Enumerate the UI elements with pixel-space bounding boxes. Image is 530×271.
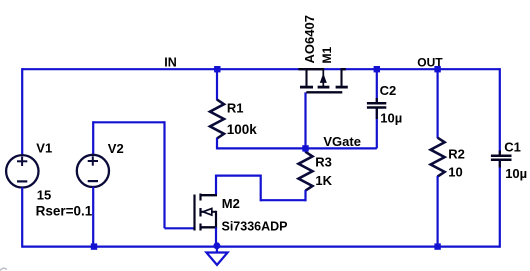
svg-text:1K: 1K — [315, 173, 332, 188]
wire top rail IN to OUT — [22, 68, 500, 70]
resistor R1 — [210, 100, 224, 139]
wire R1 top tail — [216, 69, 218, 100]
svg-text:C2: C2 — [380, 83, 397, 98]
wire V2 top vertical — [92, 121, 94, 155]
wire M2 gate horizontal — [165, 227, 195, 229]
svg-text:M2: M2 — [222, 196, 240, 211]
junction M2 source — [213, 242, 220, 249]
wire R3 to M2 drain seg2 — [260, 175, 262, 202]
junction V2 bottom — [91, 243, 97, 249]
resistor R2 — [431, 138, 445, 177]
svg-text:10µ: 10µ — [380, 111, 402, 126]
svg-text:AO6407: AO6407 — [302, 15, 317, 63]
svg-text:100k: 100k — [227, 122, 258, 137]
capacitor C1 — [491, 68, 512, 248]
transistor M2 NMOS — [195, 194, 218, 231]
junction IN — [214, 66, 220, 72]
svg-text:R3: R3 — [315, 154, 332, 169]
svg-text:10: 10 — [448, 165, 462, 180]
wire V2 top horizontal — [93, 121, 164, 123]
svg-text:V2: V2 — [108, 141, 124, 156]
svg-text:VGate: VGate — [323, 134, 361, 149]
svg-text:R2: R2 — [448, 146, 465, 161]
junction C2 top — [374, 66, 380, 72]
svg-text:V1: V1 — [36, 141, 52, 156]
svg-text:Si7336ADP: Si7336ADP — [222, 220, 288, 234]
wire R3 bottom tail — [304, 190, 306, 201]
wire bottom rail — [22, 246, 500, 248]
resistor R3 — [299, 152, 313, 191]
wire R3 top tail — [304, 148, 306, 152]
wire R3 to M2 drain seg3 — [216, 175, 261, 177]
wire gate feed vertical — [163, 121, 165, 228]
wire VGate horizontal — [217, 147, 377, 149]
corner artifact — [0, 268, 7, 270]
wire R3 to M2 drain seg1 — [261, 199, 306, 201]
junction VGate — [302, 145, 308, 151]
ground — [206, 253, 227, 265]
junction R2 bottom — [434, 243, 440, 249]
junction OUT — [434, 66, 440, 72]
svg-text:M1: M1 — [320, 47, 334, 64]
capacitor C2 — [367, 69, 386, 148]
wire M2 drain vertical — [215, 175, 217, 196]
svg-text:C1: C1 — [504, 139, 521, 154]
wire R1 bottom tail — [216, 138, 218, 150]
svg-text:15: 15 — [37, 187, 51, 202]
wire V2 bottom — [92, 187, 94, 247]
svg-text:R1: R1 — [227, 100, 244, 115]
ground stub — [216, 247, 218, 253]
wire left rail upper — [21, 68, 23, 155]
voltage source V2 — [77, 155, 109, 187]
voltage source V1 — [6, 155, 38, 187]
wire left rail lower — [21, 187, 23, 247]
wire M2 source — [215, 227, 217, 246]
transistor M1 PMOS — [298, 69, 347, 92]
wire M1 gate drop — [304, 92, 306, 149]
wire R2 top tail — [437, 69, 439, 138]
wire R2 bottom tail — [437, 176, 439, 247]
svg-text:10µ: 10µ — [505, 166, 527, 181]
svg-text:IN: IN — [164, 55, 177, 69]
svg-text:Rser=0.1: Rser=0.1 — [36, 204, 93, 219]
